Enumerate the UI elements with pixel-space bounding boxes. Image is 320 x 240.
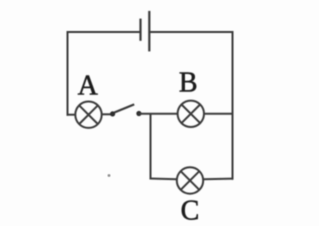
lamp B: [178, 101, 204, 127]
svg-text:C: C: [181, 196, 200, 227]
wire lamp A to switch: [102, 113, 111, 115]
wire left vertical: [67, 31, 69, 116]
svg-text:B: B: [179, 68, 198, 99]
wire top-right horizontal (battery right lead): [149, 31, 232, 33]
wire lamp C to bottom-right corner: [203, 178, 233, 181]
lamp C: [177, 167, 203, 193]
battery short plate (negative terminal): [139, 19, 141, 41]
wire lamp B to right wire: [204, 113, 233, 115]
svg-text:A: A: [78, 71, 99, 102]
switch blade (open): [114, 104, 134, 112]
wire top-left horizontal (battery left lead): [67, 31, 141, 33]
wire right vertical: [232, 31, 234, 180]
wire branch vertical to lamp C: [150, 114, 152, 180]
lamp A: [75, 102, 101, 128]
wire switch to lamp B: [139, 113, 178, 115]
battery long plate (positive terminal): [148, 11, 150, 52]
switch right contact dot: [136, 111, 141, 116]
wire bottom-left to lamp C: [150, 178, 178, 181]
stray scan speck: [108, 174, 111, 177]
wire stub left wire to lamp A: [67, 114, 76, 116]
switch left contact dot: [110, 111, 115, 116]
